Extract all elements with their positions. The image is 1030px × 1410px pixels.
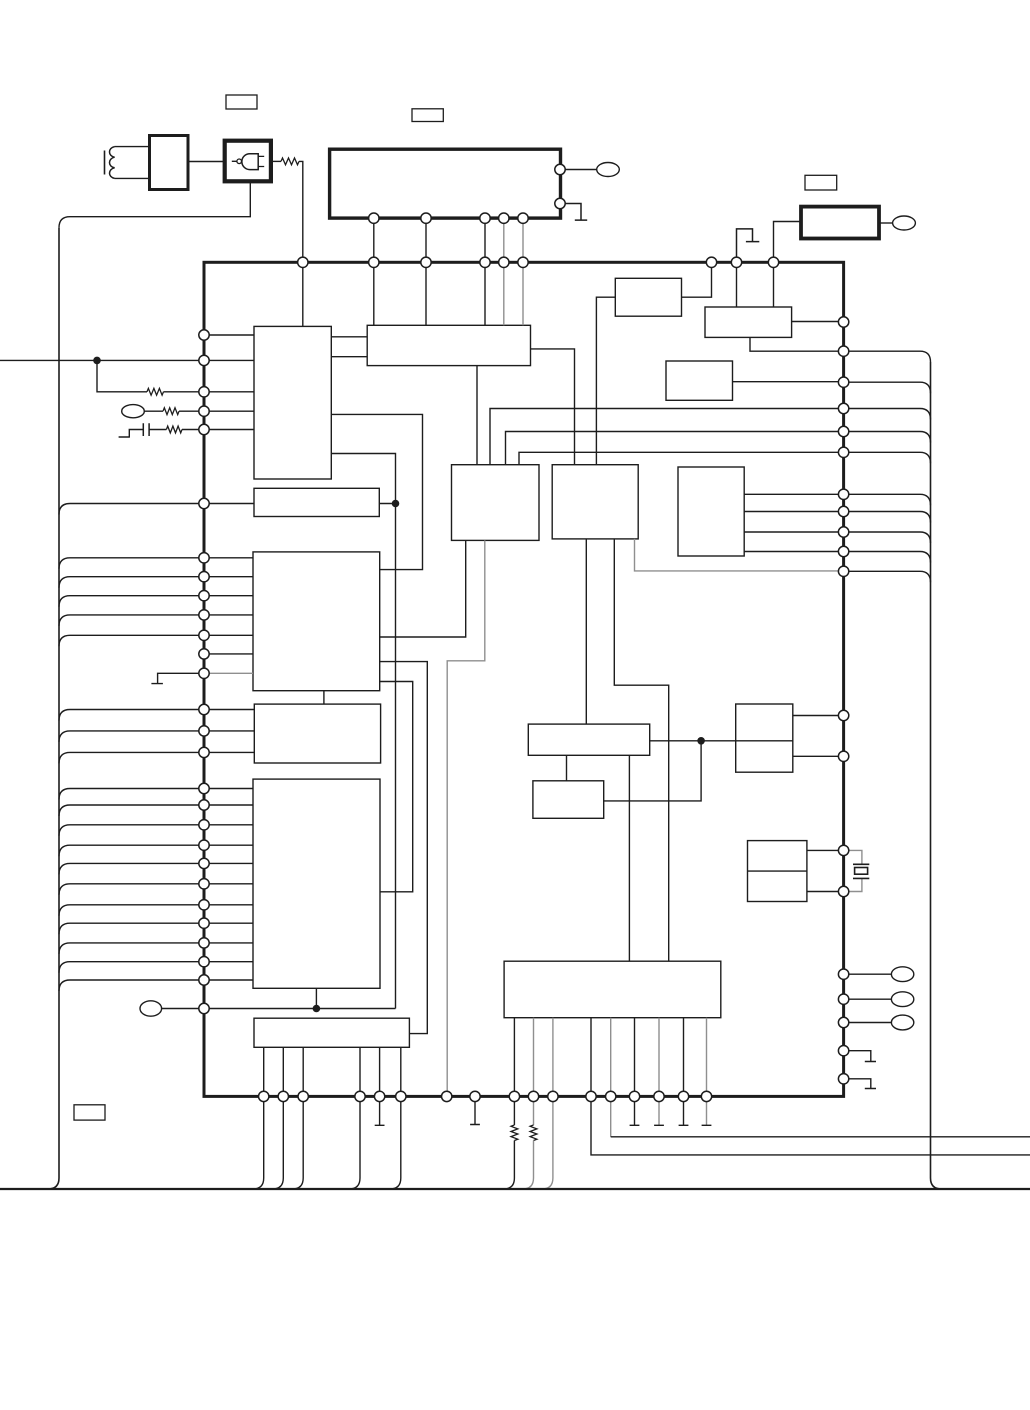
wire left pin y788.5 to block N [204,788,253,790]
wire left pin y980.0 to left bus [59,980,204,991]
wire left pin y752.4 to left bus [59,752,204,763]
net y452 (right pin to block D) [519,452,844,464]
wire S bottom to block T [566,755,568,781]
wire F right y [744,551,843,553]
resistor R6 [530,1125,537,1141]
wire C1 to R4 [149,429,166,431]
block D (chroma demod) [452,465,540,541]
wire left pin y411.2 to block B [204,410,254,412]
block C (video det) [367,325,530,365]
wire left pin y942.9 to left bus [59,943,204,954]
wire R4 to IC pin [182,429,204,431]
wire B right down col 395.5 [331,454,395,1009]
wire net AGC (y360) from page edge [0,359,204,361]
wire left pin y730.9 to block M [204,730,254,732]
wire TP4 to IC pin [162,1008,204,1010]
wire left pin y1008 across (to col 395.5) [204,1008,396,1010]
wire left pin y788.5 to left bus [59,789,204,800]
pin circle X2-bot-4 [499,213,509,223]
wire R bottom col 610.7 to bottom pin [610,1018,612,1097]
wire left pin y883.8 to block N [204,883,253,885]
wire N bottom to J3 [315,988,317,1008]
wire left pin y805.0 to left bus [59,805,204,816]
wire B-C link upper [331,336,367,338]
IC pins, top edge (9 pads) [298,257,779,267]
wire F right g [744,511,843,513]
ground G6 (right pin y1078) [844,1079,876,1089]
wire E bottom to block R (via col 668.7) [614,539,668,961]
wire left pin y824.8 to block N [204,824,253,826]
crystal XT1 plates [853,864,869,878]
IC pins, bottom edge (17 pads) [259,1091,712,1101]
wire left pin y961.7 to left bus [59,962,204,973]
junction dot J3 [313,1005,321,1013]
block S (H osc) [528,724,649,755]
wire right pin y511.5 to right bus [844,512,931,523]
resistor R2 [147,388,164,395]
wire R bottom col 683.5 to bottom pin [683,1018,685,1097]
wire left pin y904.8 to left bus [59,905,204,916]
wire C right to block E top (col 574.5) [531,349,575,465]
wire X2 pin2 to IC (col 426) [425,218,427,262]
ground G1 (at X2 right) [565,204,587,221]
wire R bottom col 552.9 to bottom pin [552,1018,554,1097]
block Q (output buffer) [254,1018,409,1047]
wire bottom pin x360.0 to bottom bus [349,1102,360,1190]
wire left pin y805.0 to block N [204,804,253,806]
block T (V osc) [533,781,604,819]
wire U right to right pin y715 [793,715,844,717]
wire left pin y730.9 to left bus [59,731,204,742]
wire C bottom to block D [476,366,478,465]
pin circle X2-bot-3 [480,213,490,223]
ground G3 (cap row) [119,430,144,438]
wire right pin y382.2 to right bus [844,382,931,393]
wire Q bottom col 379.6 to bottom pin [379,1047,381,1096]
wire K right to J2 [379,503,395,505]
wire left pin y883.8 to left bus [59,884,204,895]
wire bottom pin 552 to bottom bus (gray) [542,1102,553,1190]
wire right pin y431.5 to right bus [844,432,931,443]
block L (video chroma) [253,552,380,691]
wire left pin y576.7 to left bus [59,577,204,588]
test point TP (ellipse) y1022.5 [891,1015,913,1030]
wire left pin y360.4 to block B [204,359,254,361]
wire left pin to block K [204,503,254,505]
wire left pin y635.3 to left bus [59,635,204,646]
wire X2 pin5 to IC (col 523, gray) [522,218,524,262]
block K (AGC) [254,488,379,516]
crystal XT1 leads (gray) [844,850,862,891]
block N (audio processor) [253,779,380,988]
wire left pin y576.7 to block L [204,576,253,578]
wire J1 down to R2 [97,360,147,391]
wire top pin col373 to block C [373,262,375,325]
test point TP3 (ellipse) [122,405,145,418]
wire G bottom to right pin y351 [750,337,931,362]
wire top pin col485 to block C [484,262,486,325]
wire L right to block Q (col 427.3) [380,662,428,1034]
label box L2 (empty) [412,109,443,122]
block H (AFT) [615,278,681,316]
wire left pin y824.8 to left bus [59,825,204,836]
test point TP1 (ellipse) [597,163,620,177]
block F (RGB matrix) [678,467,744,556]
resistor R4 [166,426,182,433]
wire left pin y653.9 to block L [204,653,253,655]
wire Q bottom col 400.8 to bottom pin [400,1047,402,1096]
block V (osc, split box) [748,841,807,902]
wire X2 pin to test point TP1 [565,169,597,171]
wire W right to right pin y382 [733,381,844,383]
wire H right to top pin 711 [682,262,712,297]
wire left pin y673 to block L (gray) [204,672,253,674]
wire U10 bottom to left bus [59,182,250,228]
inductor L1 (tuner coil) [105,147,150,179]
IC pins, right edge (20 pads) [838,317,848,1084]
ground G5 (right pin y1050) [844,1051,876,1062]
wire R1 to IC pin (top) [299,161,303,262]
wire E bottom to right pin y571 (gray) [635,539,844,571]
wire left pin y595.7 to left bus [59,596,204,607]
wire right pin y494.3 to right bus [844,494,931,505]
wire X3 to IC top pin [774,222,802,263]
wire right pin y532.0 to right bus [844,532,931,543]
wire Q bottom col 360.0 to bottom pin [359,1047,361,1096]
ground G2 (step ground at IC top) [737,229,760,262]
wire left pin y709.5 to left bus [59,710,204,721]
capacitor C1 [143,423,149,436]
ground G7 (bottom pin 379) [375,1102,385,1126]
nand gate symbol inside U10 [232,154,264,170]
wire left pin y335 to block B [204,334,254,336]
block U (H out, split box) [736,704,793,772]
wire R2 to IC pin [164,391,205,393]
crystal XT1 body [855,868,868,875]
wire left pin y614.9 to left bus [59,615,204,626]
wire right pin y1022.5 to test point [844,1022,892,1024]
wire right pin y452.3 to right bus [844,452,931,463]
block M (filter) [254,704,380,763]
wire X2 pin1 to IC (col 373.8) [373,218,375,262]
ground G12 (bottom pin 706.5) [702,1102,712,1126]
wire left pin y942.9 to block N [204,942,253,944]
wire bottom pin x303.2 to bottom bus [292,1102,303,1190]
wire D bottom to block L (col 465.7) [380,540,466,637]
IC U01 main outline [204,262,844,1096]
wire top pin col426 to block C [425,262,427,325]
wire Q bottom col 263.7 to bottom pin [263,1047,265,1096]
wire right pin y551.5 to right bus [844,552,931,563]
wire R bottom col 591.0 to bottom pin [590,1018,592,1097]
test point TP (ellipse) y974.2 [891,967,913,982]
wire X2 pin4 to IC (col 503.8, gray) [503,218,505,262]
wire X1 to U10 [188,161,225,163]
pin circle X2-bot-1 [369,213,379,223]
junction dot J1 [93,357,101,365]
wire R bottom col 659.0 to bottom pin [658,1018,660,1097]
wire left pin y635.3 to block L [204,634,253,636]
wire R bottom col 514.4 to bottom pin [513,1018,515,1097]
wire left pin y557.8 to block L [204,557,253,559]
ground G10 (bottom pin 659.0) [654,1102,664,1126]
wire top pin 773 to block G [773,262,775,307]
resistor R5 [511,1125,518,1141]
ground G11 (bottom pin 683.5) [679,1102,689,1126]
wire X2 pin3 to IC (col 485) [484,218,486,262]
wire left pin y391.8 to block B [204,391,254,393]
wire left pin y752.4 to block M [204,751,254,753]
label box L1 (empty) [226,95,257,109]
wire Q bottom col 303.2 to bottom pin [302,1047,304,1096]
test point TP2 (ellipse) [893,216,916,230]
wire H left to block E top (col 596.4) [596,297,615,465]
block X1 (tuner front-end box) [150,136,189,190]
wire R bottom col 533.5 to bottom pin [533,1018,535,1097]
wire left pin y863.4 to left bus [59,863,204,874]
block X2 (IF unit, thick box) [330,149,561,218]
wire left pin y845.2 to left bus [59,845,204,856]
wire left pin y595.7 to block L [204,595,253,597]
wire L right to block N (col 412.7) [380,682,413,892]
wire bottom pin 514 upper lead [513,1102,515,1126]
wire L bottom to block M [323,691,325,704]
wire left pin y923.2 to block N [204,922,253,924]
pin circle X2-right-2 [555,198,565,208]
wire left pin y709.5 to block M [204,709,254,711]
pin circle X2-bot-2 [421,213,431,223]
net SDA (right pin y408 to block D) [490,409,844,465]
wire left pin y863.4 to block N [204,862,253,864]
wire U right to right pin y756 [793,755,844,757]
wire V right to right pin y891 [807,891,844,893]
net audio-out (bottom pin 591 to page edge) [591,1102,1030,1155]
ground G8 (bottom pin 475) [470,1102,480,1125]
wire left pin y845.2 to block N [204,844,253,846]
wire left pin y614.9 to block L [204,614,253,616]
right vertical bus wire [931,362,942,1189]
wire left pin y503.5 to left bus [59,504,204,515]
block X3 (reset IC, thick box) [801,207,879,239]
wire bottom pin x263.7 to bottom bus [253,1102,264,1190]
test point TP4 (ellipse) [140,1001,162,1016]
resistor R3 [163,408,179,415]
junction dot J2 (col395/K) [392,500,400,508]
IC pins, left edge (28 pads) [199,330,209,1014]
net SCL (right pin y431 to block D) [506,432,844,465]
wire G right to right pin y322 [792,321,844,323]
wire X3 to test point TP2 [879,222,893,224]
pin circle X2-bot-5 [518,213,528,223]
bottom horizontal bus wire [0,1188,1030,1190]
resistor R1 [281,158,299,165]
wire V right to right pin y850 [807,849,844,851]
ground G4 (left, pin row 673) [151,673,204,683]
net AV-out (bottom pin 610 to page edge) [611,1102,1030,1137]
wire F right r1 [744,493,843,495]
pin circle X2-right-1 [555,164,565,174]
wire E bottom to block S [585,539,587,724]
wire right pin y571.3 to right bus [844,571,931,582]
wire R3 to IC pin [179,410,204,412]
wire top pin 736 to block G [736,262,738,307]
wire R6 to bottom bus (gray) [523,1141,534,1190]
wire top pin to block B [302,262,304,326]
block R (bus decoder) [504,961,721,1018]
wire bottom pin 533 upper lead (gray) [533,1102,535,1126]
block E (deflection) [552,465,638,539]
wire left pin y429.5 to block B [204,429,254,431]
ground G9 (bottom pin 634.5) [630,1102,640,1126]
wire S bottom to block R [628,755,630,961]
wire R bottom col 706.5 to bottom pin [706,1018,708,1097]
block W (X-ray prot) [666,361,733,400]
wire B right to block L (via col 422.5) [331,414,422,569]
wire bottom pin x400.8 to bottom bus [390,1102,401,1190]
wire D bottom gray net to bottom pin 447 [447,540,485,1096]
wire Q bottom col 283.3 to bottom pin [282,1047,284,1096]
wire right pin y999.2 to test point [844,998,892,1000]
wire right pin y408.5 to right bus [844,409,931,420]
wire left pin y961.7 to block N [204,961,253,963]
wire TP3 to R3 [144,410,163,412]
wire R bottom col 634.5 to bottom pin [634,1018,636,1097]
block B (IF amp) [254,326,331,479]
left vertical bus wire [48,228,59,1189]
wire top pin col503 to block C (gray) [503,262,505,325]
wire B-C link lower [331,356,367,358]
junction dot J4 [697,737,705,745]
wire left pin y904.8 to block N [204,904,253,906]
wire top pin col523 to block C (gray) [522,262,524,325]
wire left pin y923.2 to left bus [59,923,204,934]
wire right pin y974.2 to test point [844,973,892,975]
wire R5 to bottom bus [503,1141,514,1190]
block G (sync sep) [705,307,792,337]
test point TP (ellipse) y999.2 [891,992,913,1007]
label box L4 (empty, bottom-left) [74,1105,105,1120]
wire U10 output to resistor R1 [271,160,281,162]
wire F right b [744,531,843,533]
wire S right to block U [650,740,736,742]
IC U10 (NAND buffer) box [225,141,271,182]
wire bottom pin x283.3 to bottom bus [272,1102,283,1190]
wire left pin y980.0 to block N [204,979,253,981]
label box L3 (empty) [805,175,837,190]
wire J4 down to block T [604,741,701,801]
wire left pin y557.8 to left bus [59,558,204,569]
